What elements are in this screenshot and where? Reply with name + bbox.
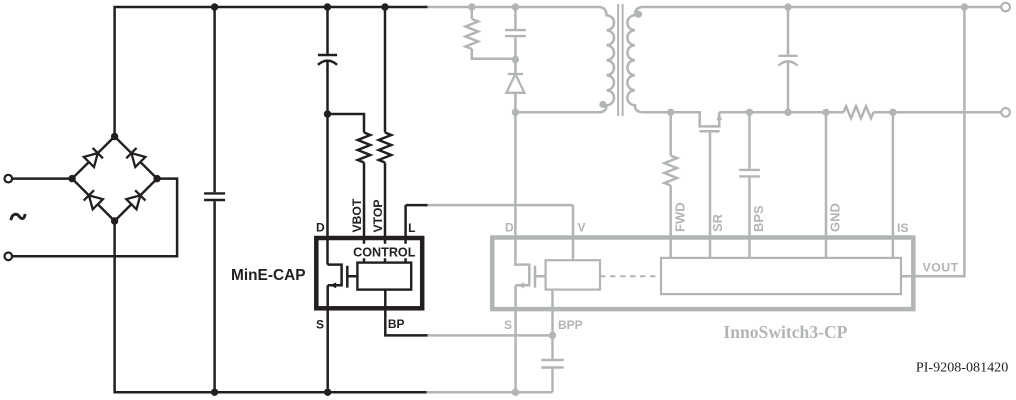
node output cap bottom [784,109,791,116]
node BPP junction [549,332,556,339]
svg-text:BPS: BPS [751,205,766,232]
svg-text:IS: IS [897,221,909,235]
transistor InnoSwitch primary FET [516,264,530,286]
clamp capacitor [505,30,526,36]
output terminal positive [1001,3,1010,12]
transformer T1 core [618,4,623,116]
wire [384,7,387,133]
transformer T1 primary winding [515,7,614,112]
wire [328,114,365,133]
svg-text:V: V [578,221,586,235]
wire SR pin [709,131,712,258]
svg-text:VOUT: VOUT [923,260,959,274]
wire [514,60,517,113]
wire BP to BPP [427,334,553,337]
wire L to V [426,204,573,207]
VBOT resistor [358,133,371,163]
svg-text:SR: SR [710,213,725,232]
wire secondary return rail [643,112,700,126]
wire [427,6,598,9]
output terminal return [1001,108,1010,117]
svg-text:VTOP: VTOP [371,200,385,233]
wire [874,111,1002,114]
wire top rail [115,7,428,137]
wire S pin InnoSwitch [514,285,517,392]
wire FWD pin [669,186,672,258]
wire [213,7,216,192]
wire AC top [12,177,72,180]
node bridge right [153,175,160,182]
wire VOUT [901,7,964,276]
wire GND pin [825,112,828,258]
node S bottom rail MinE-CAP [324,389,331,396]
bridge rectifier diamond [72,137,157,222]
node BPS rail [746,109,753,116]
bridge diode D1 [84,148,103,167]
node output cap top [784,3,791,10]
wire IS pin [892,112,895,258]
node bulk cap bottom [211,389,218,396]
wire VBOT pin [363,163,366,263]
svg-text:GND: GND [828,203,843,232]
transformer T1 secondary polarity dot [635,11,642,18]
node VTOP top rail [381,3,388,10]
wire [551,369,554,393]
node bridge top [111,133,118,140]
wire [787,7,790,55]
wire bottom rail [115,221,427,392]
wire L pin [406,205,428,263]
wire D pin InnoSwitch [515,112,529,264]
wire [326,7,329,54]
svg-text:MinE-CAP: MinE-CAP [231,266,306,284]
transistor SR FET [699,125,721,128]
bridge diode D2 [126,148,145,167]
wire VTOP pin [384,163,387,263]
AC source symbol ~ [11,214,25,220]
FWD resistor [664,156,677,186]
svg-text:FWD: FWD [672,202,687,232]
node IS rail [889,109,896,116]
bridge diode D4 [126,190,145,209]
bulk capacitor [204,193,225,200]
node bridge left [68,175,75,182]
wire [471,7,474,19]
AC input terminal bottom [5,252,13,260]
wire V pin [572,205,575,260]
wire secondary top rail [643,6,1001,9]
svg-text:S: S [504,318,512,332]
clamp resistor [466,19,479,49]
svg-text:BPP: BPP [558,318,583,332]
InnoSwitch primary controller block [546,260,600,289]
output capacitor [778,55,797,57]
wire [551,335,554,358]
node clamp top rail left [468,3,475,10]
wire [748,112,751,168]
InnoSwitch secondary controller block [661,258,901,294]
svg-text:CONTROL: CONTROL [353,246,416,260]
wire [472,49,516,59]
transistor MinE-CAP FET [328,265,342,286]
MinE-CAP series capacitor [318,54,337,56]
svg-text:D: D [316,221,325,235]
svg-text:InnoSwitch3-CP: InnoSwitch3-CP [723,322,847,342]
wire BP pin [385,290,427,336]
wire [213,201,216,392]
BPS capacitor [739,170,760,177]
svg-text:D: D [505,221,514,235]
BPP bypass capacitor [541,360,563,368]
wire [326,62,329,265]
node VBOT branch junction [324,110,331,117]
transformer T1 secondary winding [627,7,643,112]
node bridge bottom [111,217,118,224]
node clamp top rail right [512,3,519,10]
bridge diode D3 [84,190,103,209]
AC input terminal top [5,175,13,183]
svg-text:L: L [408,221,415,235]
wire S pin MinE-CAP [326,285,329,392]
transformer T1 primary polarity dot [599,101,606,108]
MinE-CAP CONTROL block [357,263,411,290]
dashed coupling link [600,275,661,277]
wire AC bottom [12,179,177,257]
svg-text:S: S [316,318,324,332]
svg-text:PI-9208-081420: PI-9208-081420 [916,360,1008,375]
wire bottom rail gray [426,391,553,394]
node bulk cap top [211,3,218,10]
wire [719,111,843,114]
VTOP resistor [379,133,392,163]
wire [514,37,517,59]
wire BPP pin [551,290,554,336]
IC InnoSwitch3-CP box [492,238,913,310]
wire [787,62,790,112]
IC MinE-CAP box [316,238,422,308]
node GND rail [822,109,829,116]
wire [514,7,517,29]
node VOUT top rail [961,3,968,10]
svg-text:VBOT: VBOT [350,198,364,232]
node FWD rail [667,109,674,116]
current sense resistor [844,106,874,118]
svg-text:BP: BP [388,317,405,331]
node clamp RC junction [512,56,519,63]
node D branch top rail [324,3,331,10]
clamp diode [506,74,524,93]
wire BPS pin [748,178,751,258]
node S bottom rail [512,389,519,396]
node drain junction [512,109,519,116]
wire [669,112,672,155]
